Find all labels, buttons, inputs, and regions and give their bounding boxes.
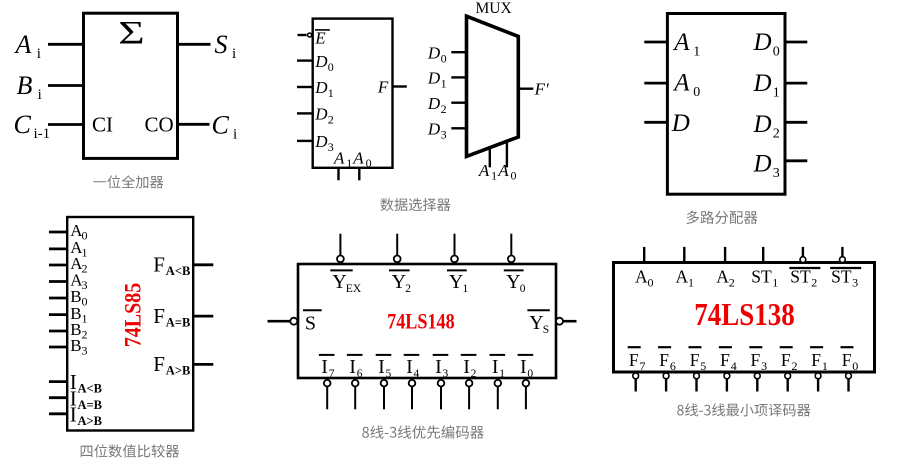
svg-text:A<B: A<B: [166, 264, 191, 278]
svg-text:7: 7: [329, 368, 335, 380]
svg-text:1: 1: [491, 169, 497, 183]
svg-text:Y: Y: [449, 271, 463, 293]
wire demux A0 input: [644, 82, 667, 85]
svg-text:D: D: [314, 52, 328, 71]
svg-text:0: 0: [852, 359, 858, 373]
wire A2 input: [49, 264, 67, 267]
svg-text:CO: CO: [145, 112, 174, 136]
svg-text:3: 3: [82, 278, 88, 292]
svg-text:A<B: A<B: [78, 382, 103, 396]
svg-text:0: 0: [648, 276, 654, 290]
wire demux D input: [644, 121, 667, 124]
bubble I_6 input: [352, 380, 359, 387]
wire A1 input: [49, 247, 67, 250]
wire F_2 stem bottom: [787, 379, 789, 391]
wire ST3 stem: [841, 247, 843, 257]
svg-text:F: F: [690, 350, 700, 370]
bubble F_3 output: [754, 373, 760, 379]
svg-text:MUX: MUX: [476, 0, 512, 17]
svg-text:A>B: A>B: [166, 364, 191, 378]
wire I_5 stem bottom: [383, 387, 385, 410]
bubble Y_S output: [556, 318, 563, 325]
svg-text:1: 1: [328, 86, 334, 100]
svg-text:1: 1: [499, 368, 505, 380]
wire C_i-1 input: [48, 123, 84, 126]
svg-text:3: 3: [852, 276, 858, 290]
mux trapezoid body: [467, 16, 519, 156]
full adder body: [84, 13, 178, 158]
wire F_5 stem bottom: [695, 379, 697, 391]
wire mux D2 input: [451, 101, 466, 103]
bubble ST2: [800, 257, 806, 263]
wire I_1 stem bottom: [497, 387, 499, 410]
svg-text:1: 1: [773, 86, 780, 101]
svg-text:1: 1: [688, 276, 694, 290]
svg-text:I: I: [321, 356, 328, 378]
svg-text:F: F: [751, 350, 761, 370]
wire I_6 stem bottom: [354, 387, 356, 410]
wire E input: [298, 34, 307, 36]
wire output stem top 0: [339, 234, 341, 256]
bubble F_0 output: [846, 373, 852, 379]
svg-text:A: A: [672, 70, 690, 97]
svg-text:2: 2: [792, 359, 798, 373]
svg-text:I: I: [406, 356, 413, 378]
svg-text:B: B: [17, 71, 33, 100]
svg-text:i: i: [233, 126, 237, 142]
svg-text:CI: CI: [92, 112, 113, 136]
wire output stem top 1: [396, 234, 398, 256]
wire mux A0 select stub: [506, 141, 508, 167]
wire C_i output: [178, 123, 210, 126]
svg-text:74LS148: 74LS148: [387, 309, 455, 334]
caption 一位全加器: [93, 175, 163, 188]
bubble I_5 input: [381, 380, 388, 387]
wire B3 input: [49, 346, 67, 349]
wire I_0 stem bottom: [525, 387, 527, 410]
svg-text:F: F: [781, 350, 791, 370]
wire D0 input: [297, 59, 313, 61]
svg-text:A: A: [716, 267, 729, 287]
svg-text:D: D: [753, 29, 772, 56]
wire D1 input: [297, 86, 313, 88]
svg-text:2: 2: [82, 328, 88, 342]
svg-text:A: A: [497, 161, 509, 180]
svg-text:Σ: Σ: [118, 16, 144, 52]
wire F_0 stem bottom: [847, 379, 849, 391]
bubble output top 1: [394, 256, 401, 263]
svg-text:A: A: [635, 267, 648, 287]
wire I_A>B input: [49, 412, 67, 415]
wire B2 input: [49, 330, 67, 333]
svg-text:F: F: [720, 350, 730, 370]
svg-text:I: I: [378, 356, 385, 378]
wire mux A1 select stub: [489, 148, 491, 168]
svg-text:ST: ST: [790, 267, 811, 287]
wire demux A1 input: [644, 41, 667, 44]
svg-text:5: 5: [700, 359, 706, 373]
wire B0 input: [49, 297, 67, 300]
svg-text:F: F: [153, 253, 165, 277]
svg-text:F: F: [629, 350, 639, 370]
svg-text:ST: ST: [831, 267, 852, 287]
svg-text:1: 1: [346, 156, 352, 170]
svg-text:3: 3: [773, 166, 780, 181]
wire D2 input: [297, 112, 313, 114]
svg-text:A: A: [14, 30, 32, 59]
wire I_A=B input: [49, 396, 67, 399]
wire I_2 stem bottom: [468, 387, 470, 410]
svg-text:2: 2: [811, 276, 817, 290]
svg-text:A: A: [676, 267, 689, 287]
svg-text:A: A: [333, 149, 345, 168]
wire F_A=B output: [192, 315, 213, 318]
svg-text:6: 6: [357, 368, 363, 380]
svg-text:C: C: [212, 110, 230, 139]
svg-text:F: F: [153, 304, 165, 328]
svg-text:D: D: [314, 105, 328, 124]
wire mux F' output: [518, 87, 533, 89]
74LS148 body: [298, 264, 556, 378]
wire mux D3 input: [451, 127, 466, 129]
svg-text:S: S: [543, 324, 549, 336]
svg-text:4: 4: [731, 359, 737, 373]
74LS138 body: [614, 263, 875, 373]
wire I_7 stem bottom: [326, 387, 328, 410]
svg-text:1: 1: [463, 283, 469, 295]
caption 多路分配器: [687, 211, 758, 224]
wire input stem top 3: [762, 247, 764, 263]
svg-text:D: D: [427, 69, 441, 88]
svg-text:I: I: [463, 356, 470, 378]
svg-text:D: D: [314, 78, 328, 97]
caption 四位数值比较器: [81, 444, 179, 457]
svg-text:74LS138: 74LS138: [694, 296, 795, 332]
svg-text:i-1: i-1: [34, 126, 51, 142]
svg-text:ST: ST: [751, 267, 772, 287]
svg-text:A: A: [352, 149, 364, 168]
svg-text:0: 0: [511, 169, 517, 183]
wire S_i output: [178, 43, 211, 46]
wire A3 input: [49, 280, 67, 283]
wire B1 input: [49, 313, 67, 316]
svg-text:2: 2: [729, 276, 735, 290]
bubble F_7 output: [633, 373, 639, 379]
demultiplexer body: [667, 14, 785, 195]
svg-text:D: D: [753, 151, 772, 178]
wire demux D2 output: [785, 121, 807, 124]
svg-text:E: E: [314, 28, 326, 47]
bubble S input: [290, 318, 297, 325]
bubble output top 2: [451, 256, 458, 263]
svg-text:S: S: [305, 313, 316, 335]
svg-text:3: 3: [328, 140, 334, 154]
svg-text:A: A: [478, 161, 490, 180]
caption 8线-3线优先编码器: [362, 425, 484, 439]
svg-text:0: 0: [82, 295, 88, 309]
svg-text:B: B: [70, 336, 81, 355]
bubble I_3 input: [438, 380, 445, 387]
svg-text:1: 1: [693, 45, 700, 60]
svg-text:D: D: [427, 120, 441, 139]
svg-text:2: 2: [773, 126, 780, 141]
wire mux D1 input: [451, 76, 466, 78]
wire F_4 stem bottom: [726, 379, 728, 391]
svg-text:I: I: [435, 356, 442, 378]
svg-text:I: I: [70, 402, 77, 426]
svg-text:1: 1: [772, 276, 778, 290]
svg-text:D: D: [427, 94, 441, 113]
bubble F_2 output: [785, 373, 791, 379]
svg-text:6: 6: [670, 359, 676, 373]
wire input stem top 2: [724, 247, 726, 263]
wire ST2 stem: [802, 247, 804, 257]
svg-text:A: A: [672, 29, 690, 56]
wire S input: [268, 320, 291, 323]
svg-text:F′: F′: [534, 80, 549, 99]
svg-text:F: F: [811, 350, 821, 370]
svg-text:Y: Y: [529, 312, 543, 334]
svg-text:0: 0: [773, 45, 780, 60]
wire A0 input: [49, 231, 67, 234]
svg-text:D: D: [753, 111, 772, 138]
svg-text:0: 0: [520, 283, 526, 295]
svg-text:I: I: [349, 356, 356, 378]
bubble output top 3: [508, 256, 515, 263]
svg-text:0: 0: [693, 85, 700, 100]
wire demux D1 output: [785, 82, 807, 85]
wire I_3 stem bottom: [440, 387, 442, 410]
wire mux D0 input: [451, 51, 466, 53]
svg-text:i: i: [232, 46, 236, 62]
svg-text:F: F: [377, 77, 389, 96]
svg-text:1: 1: [441, 77, 447, 91]
svg-text:5: 5: [386, 368, 392, 380]
wire input stem top 1: [683, 247, 685, 263]
bubble I_7 input: [324, 380, 331, 387]
wire demux D3 output: [785, 159, 807, 162]
wire F_A>B output: [192, 363, 213, 366]
wire output stem top 2: [454, 234, 456, 256]
wire I_4 stem bottom: [411, 387, 413, 410]
bubble I_0 input: [523, 380, 530, 387]
wire A1 select stub: [337, 168, 339, 181]
bubble F_4 output: [724, 373, 730, 379]
svg-text:Y: Y: [392, 271, 406, 293]
svg-text:3: 3: [443, 368, 449, 380]
wire A0 select stub: [358, 168, 360, 181]
svg-text:i: i: [38, 87, 42, 103]
wire F_3 stem bottom: [756, 379, 758, 391]
wire demux D0 output: [785, 41, 807, 44]
svg-text:A=B: A=B: [166, 315, 191, 329]
bubble ST3: [840, 257, 846, 263]
svg-text:4: 4: [414, 368, 420, 380]
bubble F_6 output: [663, 373, 669, 379]
svg-text:Y: Y: [332, 271, 346, 293]
wire F output: [393, 85, 407, 87]
wire F_6 stem bottom: [665, 379, 667, 391]
data selector body: [313, 19, 393, 168]
svg-text:D: D: [753, 70, 772, 97]
svg-text:D: D: [427, 43, 441, 62]
bubble output top 0: [337, 256, 344, 263]
svg-text:A=B: A=B: [78, 398, 103, 412]
svg-text:3: 3: [761, 359, 767, 373]
svg-text:Y: Y: [506, 271, 520, 293]
svg-text:3: 3: [82, 344, 88, 358]
svg-text:i: i: [37, 46, 41, 62]
wire input stem top 0: [643, 247, 645, 263]
svg-text:3: 3: [441, 128, 447, 142]
svg-text:2: 2: [471, 368, 477, 380]
wire F_7 stem bottom: [635, 379, 637, 391]
wire output stem top 3: [510, 234, 512, 256]
svg-text:EX: EX: [346, 283, 362, 295]
bubble I_4 input: [409, 380, 416, 387]
svg-text:1: 1: [82, 311, 88, 325]
svg-text:C: C: [14, 110, 32, 139]
svg-text:0: 0: [366, 156, 372, 170]
svg-text:D: D: [671, 110, 690, 137]
svg-text:F: F: [659, 350, 669, 370]
svg-text:0: 0: [441, 51, 447, 65]
svg-text:2: 2: [441, 102, 447, 116]
74LS85 part number (rotated): [120, 283, 146, 347]
svg-text:2: 2: [405, 283, 411, 295]
bubble F_5 output: [694, 373, 700, 379]
caption 数据选择器: [380, 198, 450, 211]
wire F_A<B output: [192, 263, 213, 266]
wire B_i input: [48, 84, 84, 87]
svg-text:F: F: [842, 350, 852, 370]
wire D3 input: [297, 140, 313, 142]
wire Y_S output: [563, 320, 577, 323]
svg-text:74LS85: 74LS85: [120, 283, 146, 347]
svg-text:I: I: [520, 356, 527, 378]
svg-text:A>B: A>B: [78, 414, 103, 428]
bubble on E input: [308, 33, 312, 37]
svg-text:F: F: [153, 352, 165, 376]
svg-text:1: 1: [822, 359, 828, 373]
svg-text:D: D: [314, 132, 328, 151]
bubble I_1 input: [495, 380, 502, 387]
bubble F_1 output: [815, 373, 821, 379]
bubble I_2 input: [466, 380, 473, 387]
caption 8线-3线最小项译码器: [677, 403, 810, 416]
wire F_1 stem bottom: [817, 379, 819, 391]
svg-text:2: 2: [328, 113, 334, 127]
wire A_i input: [48, 43, 84, 46]
74LS85 body: [67, 217, 193, 431]
svg-text:0: 0: [527, 368, 533, 380]
svg-text:S: S: [215, 30, 228, 59]
svg-text:0: 0: [328, 60, 334, 74]
wire I_A<B input: [49, 380, 67, 383]
svg-text:I: I: [492, 356, 499, 378]
svg-text:7: 7: [640, 359, 646, 373]
